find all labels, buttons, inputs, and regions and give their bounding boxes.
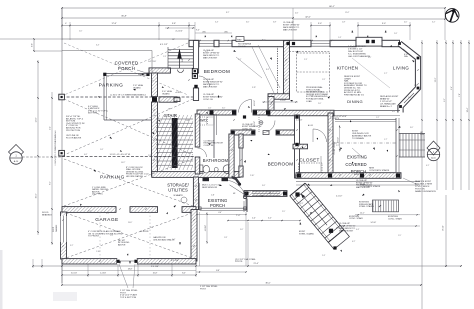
svg-text:3'-5": 3'-5" — [368, 57, 372, 59]
svg-text:2'-1 3/4": 2'-1 3/4" — [151, 266, 159, 268]
svg-text:POST: POST — [200, 288, 207, 290]
svg-text:CONCRETE STAIRS: CONCRETE STAIRS — [360, 185, 381, 188]
svg-text:3'-8": 3'-8" — [172, 23, 176, 25]
svg-text:SAME FOUNDATION: SAME FOUNDATION — [415, 190, 436, 193]
svg-text:4'-1 1/2": 4'-1 1/2" — [160, 44, 168, 46]
svg-text:PARKING: PARKING — [100, 175, 125, 181]
svg-text:8'-0 1/2": 8'-0 1/2" — [338, 137, 340, 143]
svg-text:2'-8": 2'-8" — [342, 21, 346, 23]
svg-text:STAIR: STAIR — [164, 113, 178, 118]
svg-text:BEDROOM: BEDROOM — [268, 162, 294, 167]
svg-text:UTILITIES: UTILITIES — [168, 188, 188, 193]
svg-text:10'-8": 10'-8" — [153, 273, 158, 275]
svg-text:4'-0 1/2": 4'-0 1/2" — [254, 100, 256, 106]
svg-text:PORCH: PORCH — [210, 203, 225, 208]
svg-text:6'-4": 6'-4" — [96, 45, 100, 47]
svg-text:9'-1": 9'-1" — [444, 98, 446, 102]
svg-text:3'-0": 3'-0" — [222, 108, 226, 110]
svg-text:14'-10": 14'-10" — [371, 222, 377, 224]
svg-text:3'-4": 3'-4" — [215, 21, 219, 23]
svg-text:(G1 TYPE): (G1 TYPE) — [92, 194, 103, 196]
svg-text:2'-6": 2'-6" — [394, 33, 398, 35]
svg-text:CONC. BL: CONC. BL — [203, 99, 214, 101]
svg-text:CONC. BL: CONC. BL — [204, 145, 215, 147]
svg-text:POSTS: POSTS — [235, 261, 243, 263]
svg-text:21'-4": 21'-4" — [253, 263, 258, 265]
svg-text:1'-8": 1'-8" — [224, 237, 228, 239]
svg-text:12'-2": 12'-2" — [435, 77, 437, 82]
svg-text:3'-6": 3'-6" — [262, 185, 266, 187]
svg-text:BEARING: BEARING — [42, 213, 52, 216]
svg-text:W/D: W/D — [200, 119, 207, 123]
svg-text:2'-4": 2'-4" — [322, 255, 326, 257]
svg-text:UP: UP — [182, 58, 184, 62]
svg-text:2'-2": 2'-2" — [106, 213, 110, 215]
svg-text:1/8 SLOPE: 1/8 SLOPE — [140, 231, 149, 233]
svg-text:18'-8": 18'-8" — [128, 269, 133, 271]
svg-text:PORCH: PORCH — [118, 66, 135, 71]
svg-text:4'-1 1/2": 4'-1 1/2" — [175, 31, 183, 33]
svg-text:8'-0": 8'-0" — [182, 273, 186, 275]
svg-text:1'-11": 1'-11" — [414, 85, 418, 87]
svg-text:42'-0": 42'-0" — [305, 17, 311, 19]
svg-text:GARAGE: GARAGE — [95, 217, 119, 223]
svg-text:CONC. STAIR: CONC. STAIR — [349, 217, 363, 220]
svg-text:2'-7": 2'-7" — [384, 73, 388, 75]
svg-text:CLOSET: CLOSET — [299, 158, 319, 163]
svg-text:1'-7": 1'-7" — [384, 139, 388, 141]
svg-text:EXISTING: EXISTING — [347, 155, 368, 160]
svg-text:3'-0 1/4": 3'-0 1/4" — [71, 273, 78, 275]
svg-text:PARKING: PARKING — [99, 83, 124, 89]
svg-text:2'-10": 2'-10" — [250, 175, 255, 177]
svg-text:A 0.95: A 0.95 — [308, 124, 313, 127]
svg-text:2'-3": 2'-3" — [304, 59, 308, 61]
svg-text:4'-6": 4'-6" — [295, 13, 299, 15]
svg-text:2'-2": 2'-2" — [336, 145, 340, 147]
svg-text:2'-1 3/4": 2'-1 3/4" — [100, 273, 107, 275]
svg-text:COVERED: COVERED — [115, 61, 139, 66]
svg-text:3'-2": 3'-2" — [432, 21, 436, 23]
svg-text:LIVING: LIVING — [393, 65, 409, 70]
svg-text:5'-6": 5'-6" — [408, 97, 412, 99]
svg-text:L POSTS: L POSTS — [330, 118, 340, 120]
svg-text:6'-0": 6'-0" — [246, 21, 250, 23]
svg-text:4'-1 1/4": 4'-1 1/4" — [296, 120, 303, 122]
svg-text:4'-0": 4'-0" — [218, 212, 222, 214]
svg-text:12'-4": 12'-4" — [345, 12, 350, 14]
svg-text:3-1 3/4" x 14" x 36'-0 1/2" ML: 3-1 3/4" x 14" x 36'-0 1/2" ML — [110, 154, 131, 156]
svg-text:5'-2": 5'-2" — [268, 217, 272, 219]
svg-text:3'-9": 3'-9" — [300, 203, 304, 205]
svg-text:CONC. STAIR: CONC. STAIR — [388, 217, 402, 220]
svg-text:4'-2": 4'-2" — [336, 228, 340, 230]
svg-text:KITCHEN: KITCHEN — [337, 65, 358, 70]
svg-text:DIA: DIA — [404, 55, 408, 58]
svg-text:4'-4": 4'-4" — [356, 229, 360, 231]
svg-text:3'-2": 3'-2" — [70, 245, 74, 247]
svg-text:7'-4": 7'-4" — [236, 215, 241, 217]
svg-text:16'-5": 16'-5" — [36, 193, 38, 198]
svg-text:MATCH EXIST: MATCH EXIST — [339, 229, 354, 232]
svg-text:2'-8": 2'-8" — [148, 155, 152, 157]
svg-text:5'-0": 5'-0" — [240, 229, 244, 231]
svg-text:FLOOR ABOVE: FLOOR ABOVE — [66, 136, 82, 139]
svg-text:36'-0": 36'-0" — [265, 282, 270, 284]
svg-text:STEEL GUARD: STEEL GUARD — [299, 232, 314, 235]
svg-text:1'-6": 1'-6" — [100, 149, 104, 151]
svg-text:8'-8": 8'-8" — [216, 270, 220, 272]
svg-text:CONCRETE STAIRS: CONCRETE STAIRS — [369, 169, 390, 172]
svg-text:4'-0": 4'-0" — [404, 21, 408, 23]
svg-text:4'-6": 4'-6" — [84, 154, 88, 156]
svg-text:9'-4": 9'-4" — [50, 126, 52, 130]
svg-text:5'-4": 5'-4" — [310, 96, 314, 98]
svg-text:16'-10": 16'-10" — [443, 225, 445, 231]
svg-text:17'-8": 17'-8" — [111, 23, 116, 25]
svg-text:1'-3": 1'-3" — [163, 56, 167, 58]
svg-text:2'-4 1/2": 2'-4 1/2" — [280, 100, 286, 102]
svg-text:EXIST: EXIST — [354, 174, 360, 176]
svg-text:9'-2": 9'-2" — [150, 227, 154, 229]
svg-text:LOAD: LOAD — [306, 100, 312, 103]
svg-text:3'-1 3/4": 3'-1 3/4" — [171, 260, 179, 262]
svg-text:35'-8": 35'-8" — [121, 16, 127, 18]
svg-text:2'-0": 2'-0" — [318, 103, 322, 105]
svg-text:BATHROOM: BATHROOM — [203, 158, 229, 163]
svg-text:10'-2": 10'-2" — [121, 162, 126, 164]
svg-text:2'-4": 2'-4" — [252, 217, 256, 219]
svg-text:4'-1 1/2": 4'-1 1/2" — [336, 196, 343, 198]
svg-text:1'-0": 1'-0" — [88, 211, 92, 213]
svg-text:TOP & BOTTOM: TOP & BOTTOM — [120, 297, 136, 299]
svg-text:BEDROOM: BEDROOM — [204, 69, 231, 74]
svg-text:1'-6": 1'-6" — [211, 195, 215, 197]
svg-text:3'-11": 3'-11" — [252, 87, 256, 89]
svg-text:4'-0 1/2": 4'-0 1/2" — [205, 225, 207, 232]
svg-text:7'-0": 7'-0" — [459, 93, 461, 97]
svg-text:MATCH EXIST: MATCH EXIST — [283, 28, 298, 31]
svg-text:FIRE RATING AT 5/1: FIRE RATING AT 5/1 — [344, 93, 365, 96]
svg-text:66'-1": 66'-1" — [329, 6, 335, 8]
svg-text:2'-6": 2'-6" — [208, 108, 212, 110]
svg-text:2'-5": 2'-5" — [282, 211, 286, 213]
svg-text:9'-0": 9'-0" — [196, 30, 200, 32]
svg-text:17R: 17R — [420, 134, 424, 136]
svg-text:2'-9": 2'-9" — [110, 235, 114, 237]
svg-text:3'-4": 3'-4" — [451, 86, 453, 90]
svg-text:8'-1": 8'-1" — [50, 181, 52, 185]
svg-text:STEEL STAIRS: STEEL STAIRS — [359, 205, 374, 208]
svg-text:2'-0": 2'-0" — [79, 31, 83, 33]
svg-text:12'-6": 12'-6" — [36, 117, 38, 122]
svg-text:GUARD: GUARD — [162, 92, 170, 95]
svg-text:DINING: DINING — [347, 99, 363, 104]
svg-text:2'-1": 2'-1" — [238, 59, 242, 61]
svg-text:150 S.F.: 150 S.F. — [238, 46, 246, 48]
svg-text:TO FRONT: TO FRONT — [88, 236, 100, 238]
svg-text:20'-6": 20'-6" — [128, 222, 133, 224]
svg-text:3'-8": 3'-8" — [273, 21, 277, 23]
svg-text:4'-2": 4'-2" — [205, 51, 209, 53]
svg-text:DOOR: DOOR — [53, 226, 55, 232]
svg-text:W HEATR: W HEATR — [173, 194, 183, 197]
svg-text:1'-5": 1'-5" — [398, 235, 402, 237]
svg-text:12'-1": 12'-1" — [360, 213, 365, 215]
svg-text:3'-0": 3'-0" — [382, 23, 386, 25]
svg-text:4'-1": 4'-1" — [426, 165, 430, 167]
svg-text:1/2": 1/2" — [172, 39, 175, 41]
svg-text:NEW WINDOW: NEW WINDOW — [202, 187, 218, 189]
svg-text:Rw1: Rw1 — [237, 40, 240, 42]
svg-text:1'-10": 1'-10" — [96, 251, 101, 253]
svg-text:GARAGE: GARAGE — [55, 224, 58, 232]
svg-text:8'-4": 8'-4" — [266, 69, 270, 71]
svg-text:HR FIRE RATING: HR FIRE RATING — [126, 175, 143, 178]
svg-text:ABOVE: ABOVE — [118, 243, 126, 246]
svg-text:+6'/8T: +6'/8T — [175, 92, 182, 94]
svg-text:COVERED: COVERED — [345, 162, 366, 167]
svg-text:6'-2": 6'-2" — [352, 241, 356, 243]
svg-text:CONC. BL: CONC. BL — [242, 128, 253, 130]
svg-text:1'-4": 1'-4" — [338, 37, 342, 39]
svg-text:BOTTOM: BOTTOM — [88, 113, 97, 115]
svg-text:2'x6" POST: 2'x6" POST — [138, 74, 150, 76]
svg-text:6'-1": 6'-1" — [172, 239, 176, 241]
svg-text:8'-2": 8'-2" — [226, 12, 230, 14]
svg-text:MATCH EXIST: MATCH EXIST — [203, 56, 218, 59]
svg-text:9'x9' POST: 9'x9' POST — [148, 61, 156, 63]
svg-text:1'-9": 1'-9" — [322, 79, 326, 81]
svg-text:9'-6": 9'-6" — [32, 43, 34, 47]
svg-text:26'-4": 26'-4" — [467, 107, 469, 112]
svg-text:Rw2: Rw2 — [262, 40, 265, 42]
svg-text:6'-8": 6'-8" — [392, 111, 396, 113]
svg-text:TO REMAIN: TO REMAIN — [352, 137, 364, 140]
svg-text:3'-0": 3'-0" — [410, 127, 414, 129]
svg-text:1'-2": 1'-2" — [376, 117, 380, 119]
svg-text:MATCH EXIST: MATCH EXIST — [203, 85, 218, 88]
svg-text:3'-0": 3'-0" — [318, 23, 322, 25]
svg-text:PROTECTION: PROTECTION — [66, 130, 80, 132]
svg-text:BEAM No. 2: BEAM No. 2 — [380, 105, 393, 108]
